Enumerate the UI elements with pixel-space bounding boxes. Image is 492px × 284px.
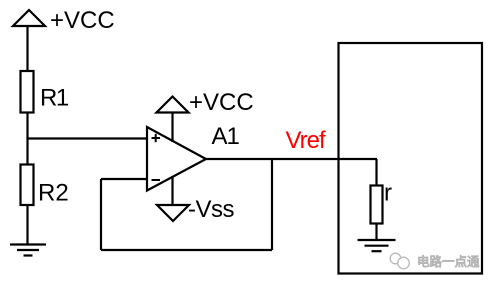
op-amp U1 triangle	[147, 127, 206, 191]
svg-text:r: r	[384, 180, 392, 207]
wire +VCC stub to op-amp top edge	[171, 113, 173, 143]
power symbol +VCC top-left	[13, 10, 45, 26]
resistor R1	[21, 71, 34, 113]
feedback wire left vertical	[100, 179, 102, 250]
resistor r	[371, 186, 383, 224]
feedback wire into inverting input	[101, 178, 147, 180]
ground left	[10, 245, 46, 256]
svg-text:+VCC: +VCC	[50, 7, 115, 34]
feedback wire tap down from output node	[271, 159, 273, 250]
svg-text:-Vss: -Vss	[188, 196, 235, 223]
svg-text:R1: R1	[40, 85, 69, 112]
resistor R2	[21, 165, 34, 206]
load box outline	[339, 43, 483, 274]
wire R1 to junction	[26, 113, 28, 139]
watermark logo icon	[390, 253, 409, 269]
op-amp plus input marker	[152, 134, 161, 142]
feedback wire bottom horizontal	[101, 249, 272, 251]
svg-text:A1: A1	[212, 123, 240, 150]
wire +VCC to R1	[26, 26, 28, 71]
wire down from output rail to resistor r	[375, 159, 377, 186]
svg-text:+VCC: +VCC	[189, 89, 254, 116]
power symbol +VCC above op-amp	[157, 97, 189, 113]
wire r to ground	[375, 224, 377, 241]
op-amp minus input marker	[152, 179, 161, 181]
power symbol -Vss below op-amp	[157, 205, 189, 221]
wire op-amp output to load resistor r	[206, 158, 377, 160]
wire junction to R2	[26, 139, 28, 165]
ground right	[358, 240, 396, 251]
wire op-amp bottom edge to -Vss	[171, 176, 173, 205]
wire junction to op-amp non-inverting input	[28, 137, 148, 139]
wire R2 to ground	[26, 205, 28, 244]
svg-text:Vref: Vref	[286, 127, 326, 154]
svg-text:电路一点通: 电路一点通	[417, 254, 480, 269]
svg-text:R2: R2	[38, 180, 69, 207]
